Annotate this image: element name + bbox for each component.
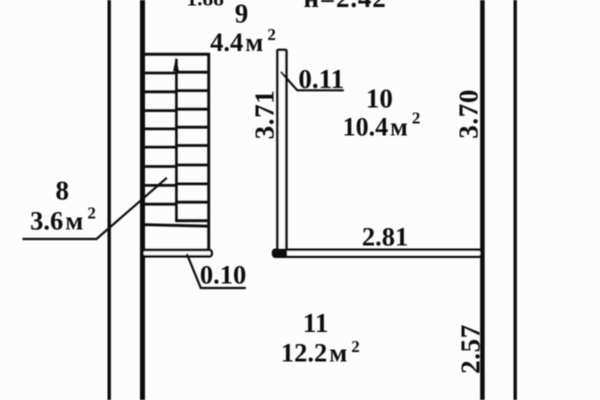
svg-text:11: 11 (303, 308, 329, 338)
staircase middle divider (175, 59, 178, 222)
svg-text:8: 8 (56, 176, 70, 206)
staircase steps left flight (145, 73, 178, 204)
wall left outer (107, 0, 110, 400)
svg-text:1.88: 1.88 (186, 0, 224, 11)
staircase steps right flight (175, 72, 210, 221)
staircase right edge (207, 53, 210, 250)
wall right inner (480, 0, 485, 400)
svg-text:10: 10 (366, 83, 393, 113)
svg-text:9: 9 (235, 0, 249, 29)
stairs landing bar (142, 250, 211, 256)
svg-text:0.10: 0.10 (200, 260, 246, 290)
svg-text:2.57: 2.57 (455, 324, 485, 374)
wall left inner (thick) (140, 0, 145, 400)
svg-text:3.70: 3.70 (454, 89, 484, 139)
wall junction solid (273, 249, 288, 258)
svg-text:2.81: 2.81 (362, 221, 408, 251)
wall right outer (514, 0, 517, 400)
leader line 0.11 (281, 72, 344, 91)
wall B horizontal (room 10/11 partition) (273, 250, 482, 257)
leader line room 8 (23, 178, 167, 239)
svg-text:0.11: 0.11 (298, 64, 344, 94)
staircase top line (145, 53, 210, 56)
staircase bottom step line (full width) (145, 225, 209, 227)
stair direction arrow (173, 57, 179, 71)
svg-text:н=2.42: н=2.42 (304, 0, 387, 13)
leader line 0.10 (187, 254, 246, 288)
svg-text:3.71: 3.71 (249, 90, 279, 140)
wall A vertical (room 9/10 partition) (277, 50, 286, 250)
